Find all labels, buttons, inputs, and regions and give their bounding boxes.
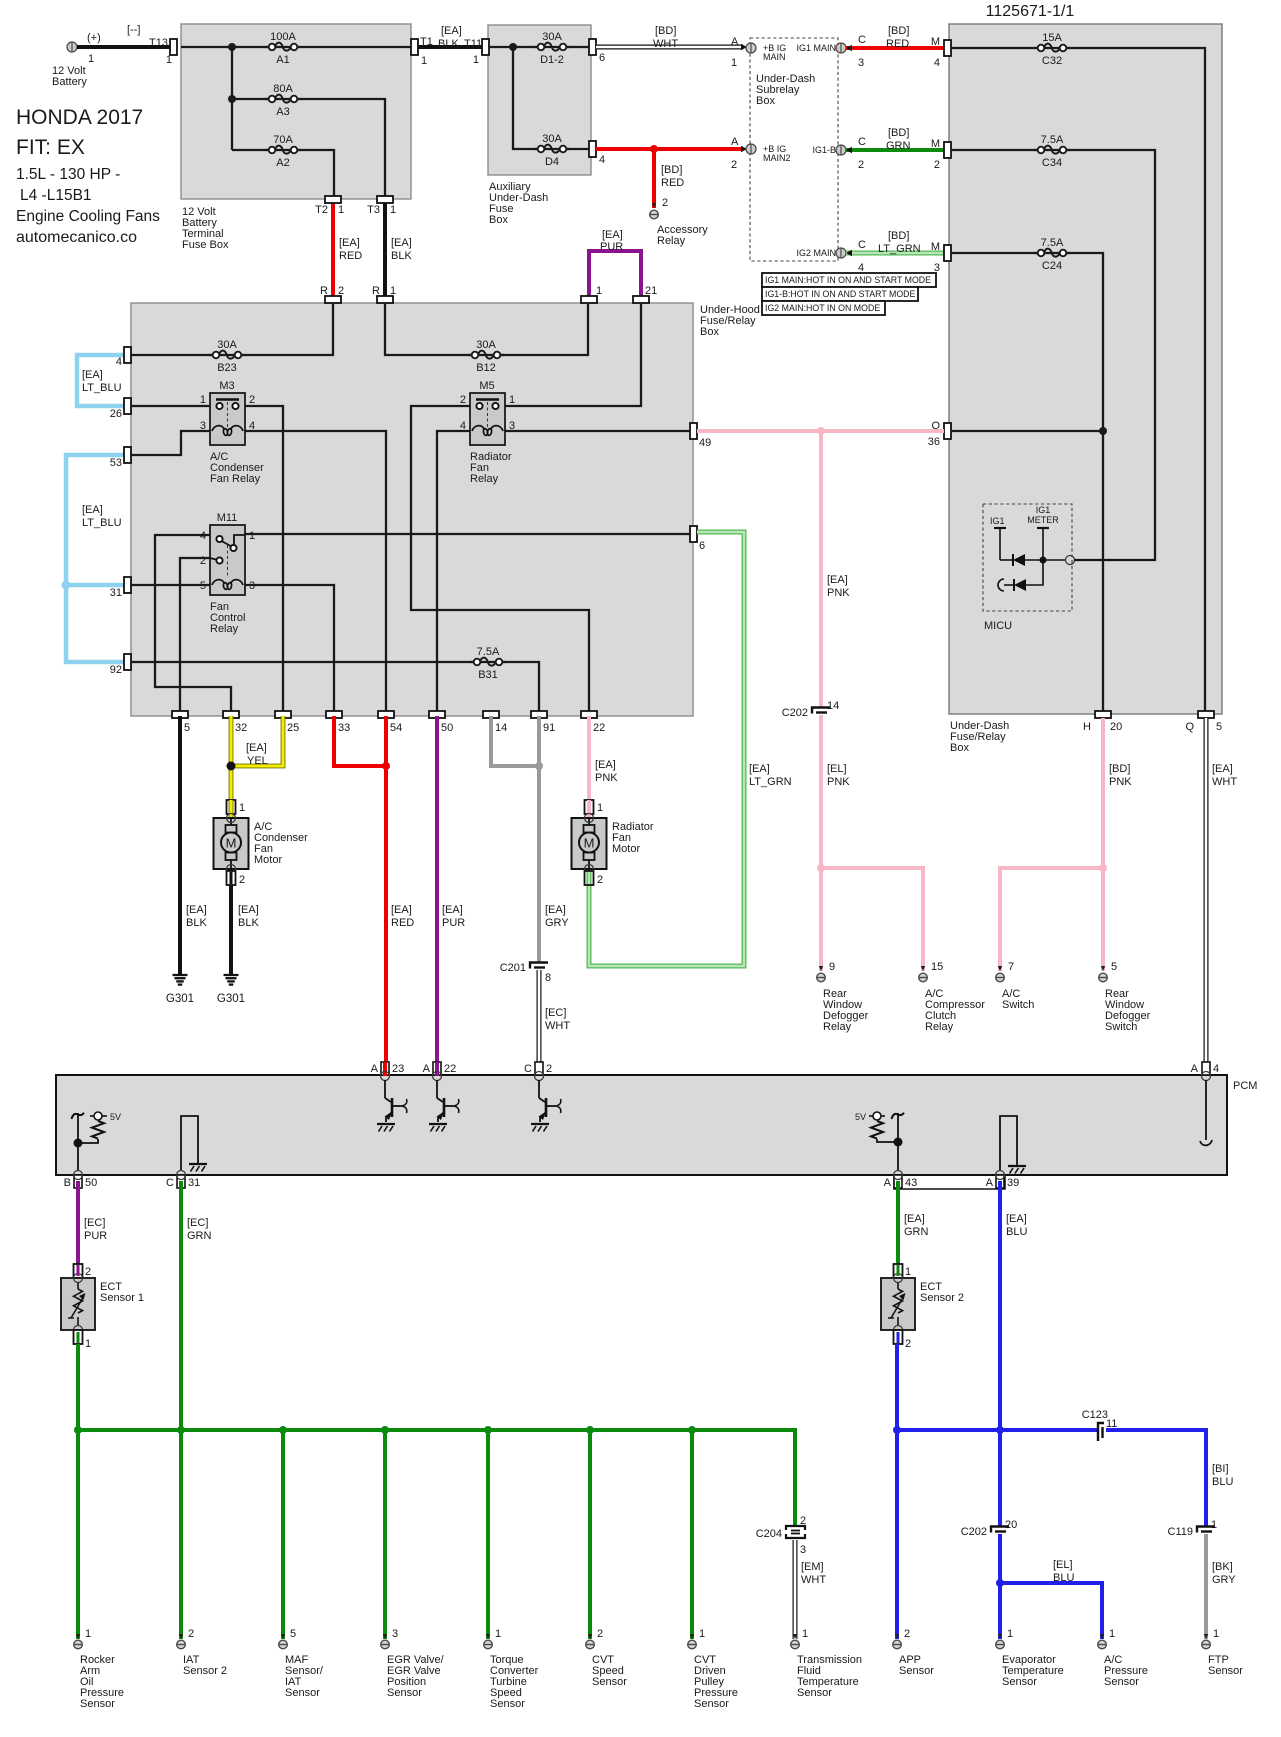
connector M4 pin — [944, 40, 951, 56]
svg-text:WHT: WHT — [801, 1574, 826, 1586]
fuse A3 80A — [265, 83, 301, 118]
svg-text:M: M — [584, 836, 595, 851]
svg-text:Sensor: Sensor — [592, 1676, 627, 1688]
svg-text:BLU: BLU — [1053, 1572, 1074, 1584]
svg-text:B: B — [64, 1177, 71, 1189]
wire M5 pin4 to pin50 — [437, 431, 470, 711]
svg-text:20: 20 — [1110, 721, 1122, 733]
svg-text:YEL: YEL — [247, 755, 268, 767]
svg-text:T13: T13 — [149, 37, 168, 49]
wire M11 pin3 to pin33 — [245, 585, 334, 711]
MICU diode 1 — [1013, 554, 1043, 566]
svg-text:WHT: WHT — [545, 1020, 570, 1032]
svg-text:R: R — [372, 285, 380, 297]
label [EC] GRN — [187, 1217, 212, 1242]
svg-text:M: M — [931, 138, 940, 150]
svg-text:Switch: Switch — [1002, 999, 1034, 1011]
svg-text:LT_GRN: LT_GRN — [878, 243, 921, 255]
wire pin26 to relay M3 pin1 — [131, 405, 210, 407]
svg-text:Sensor: Sensor — [797, 1687, 832, 1699]
MICU IG1 branch — [990, 516, 1013, 560]
svg-text:7: 7 — [1008, 961, 1014, 973]
svg-text:33: 33 — [338, 722, 350, 734]
svg-text:IG1-B: IG1-B — [812, 145, 836, 155]
PCM pin A43 — [884, 1175, 918, 1189]
svg-text:BLK: BLK — [186, 917, 207, 929]
svg-text:[EA]: [EA] — [238, 904, 259, 916]
svg-text:15A: 15A — [1042, 32, 1062, 44]
svg-text:C: C — [858, 34, 866, 46]
svg-text:2: 2 — [239, 874, 245, 886]
svg-text:M: M — [931, 36, 940, 48]
label [EA] BLK pin5 — [186, 904, 207, 929]
PCM pin B50 ring — [74, 1171, 83, 1180]
svg-text:BLU: BLU — [1212, 1476, 1233, 1488]
svg-text:70A: 70A — [273, 134, 293, 146]
wire [BK] GRY C119 to FTP sensor — [1204, 1534, 1208, 1639]
junction bus CVT — [586, 1426, 594, 1434]
svg-text:BLK: BLK — [438, 38, 459, 50]
PCM pin B50 — [64, 1175, 98, 1189]
wire M11 pin1 to pin6 — [245, 533, 690, 535]
svg-text:4: 4 — [460, 420, 466, 432]
junction bus IAT — [177, 1426, 185, 1434]
svg-text:MICU: MICU — [984, 620, 1012, 632]
PCM pin A4 — [1191, 1062, 1219, 1075]
svg-text:4: 4 — [249, 420, 255, 432]
wire [EA] LT_BLU pin53 pin31 pin92 — [66, 455, 123, 662]
pin 33 under-hood bottom — [326, 711, 350, 734]
svg-text:1: 1 — [905, 1266, 911, 1278]
svg-text:Relay: Relay — [823, 1021, 852, 1033]
12 Volt Battery Terminal Fuse Box outline — [181, 24, 411, 199]
svg-text:A: A — [731, 36, 739, 48]
svg-text:9: 9 — [829, 961, 835, 973]
wire junction down to D4 row — [513, 47, 589, 149]
svg-text:R: R — [320, 285, 328, 297]
svg-text:53: 53 — [110, 457, 122, 469]
label [EA] BLK T11 — [438, 25, 482, 50]
label C 3 [BD] RED M — [858, 25, 940, 69]
connector C201 pin 8 — [500, 962, 551, 984]
terminal 7 A/C Switch — [996, 961, 1014, 982]
svg-text:26: 26 — [110, 408, 122, 420]
svg-text:1.5L - 130 HP -: 1.5L - 130 HP - — [16, 166, 120, 183]
PCM A39 internal ground — [1000, 1116, 1026, 1174]
svg-text:1: 1 — [421, 55, 427, 67]
pin 32 under-hood bottom — [223, 711, 247, 734]
label [BK] GRY — [1212, 1561, 1236, 1586]
svg-text:[EA]: [EA] — [827, 574, 848, 586]
svg-text:[EA]: [EA] — [602, 229, 623, 241]
pin 49 under-hood right — [690, 423, 711, 449]
svg-text:6: 6 — [699, 540, 705, 552]
junction pink at C202 branch — [817, 427, 825, 435]
svg-text:1: 1 — [200, 394, 206, 406]
svg-text:5: 5 — [1216, 721, 1222, 733]
svg-text:T3: T3 — [367, 204, 380, 216]
blue sensor bus — [897, 1428, 1098, 1432]
svg-text:[EA]: [EA] — [391, 904, 412, 916]
svg-text:Sensor 2: Sensor 2 — [183, 1665, 227, 1677]
svg-text:3: 3 — [200, 420, 206, 432]
Under-Hood Fuse/Relay Box outline — [131, 303, 693, 716]
pin 26 under-hood left — [110, 398, 131, 420]
label [EL] BLU — [1053, 1559, 1074, 1584]
aux box pin 6 — [589, 39, 605, 64]
svg-text:1: 1 — [495, 1628, 501, 1640]
svg-text:[EA]: [EA] — [1212, 763, 1233, 775]
terminal 3 EGR Valve/ EGR Valve Position Sensor — [381, 1628, 398, 1649]
svg-text:2: 2 — [85, 1266, 91, 1278]
svg-text:C: C — [166, 1177, 174, 1189]
svg-text:Sensor: Sensor — [490, 1698, 525, 1710]
transistor driver at C2 — [531, 1080, 561, 1132]
svg-text:30A: 30A — [542, 133, 562, 145]
svg-text:[BK]: [BK] — [1212, 1561, 1233, 1573]
connector R1 — [372, 285, 396, 303]
svg-text:2: 2 — [800, 1515, 806, 1527]
svg-text:[BD]: [BD] — [661, 164, 682, 176]
svg-text:1: 1 — [239, 802, 245, 814]
connector R2 — [320, 285, 344, 303]
node +B IG MAIN2 — [746, 144, 791, 163]
node labels A 1 — [731, 36, 739, 69]
label [BD] PNK — [1109, 763, 1132, 788]
svg-text:1: 1 — [1007, 1628, 1013, 1640]
transistor driver at A22 — [429, 1080, 459, 1132]
note box IG2 MAIN HOT IN ON MODE — [762, 301, 885, 315]
svg-text:Box: Box — [700, 326, 719, 338]
label [EA] PUR jumper — [600, 229, 623, 253]
wire [EA] RED T2 to R2 — [331, 203, 335, 296]
wire pin5 black to ground — [178, 716, 182, 974]
svg-text:1: 1 — [473, 54, 479, 66]
svg-text:Relay: Relay — [657, 235, 686, 247]
node IG1 MAIN — [796, 43, 846, 53]
svg-text:3: 3 — [249, 580, 255, 592]
connector Q5 — [1185, 711, 1222, 733]
svg-text:(+): (+) — [87, 32, 101, 44]
svg-text:C32: C32 — [1042, 55, 1062, 67]
junction blue bus A39 — [996, 1426, 1004, 1434]
PCM C31 internal ground — [181, 1116, 207, 1172]
svg-text:HONDA 2017: HONDA 2017 — [16, 106, 143, 129]
junction Q36 wire on H20 drop — [1099, 427, 1107, 435]
svg-text:Box: Box — [950, 742, 969, 754]
svg-text:[EA]: [EA] — [595, 759, 616, 771]
svg-text:Box: Box — [489, 214, 508, 226]
svg-text:RED: RED — [886, 38, 909, 50]
PCM pin A23 — [371, 1062, 405, 1075]
svg-text:[EA]: [EA] — [186, 904, 207, 916]
A/C Condenser Fan Motor body M — [214, 802, 249, 886]
wire [BD] GRN IG1-B to M2 — [846, 148, 944, 152]
wire [EC] WHT C201 to PCM C2 — [537, 970, 542, 1062]
junction bus CVT driven — [688, 1426, 696, 1434]
svg-text:IG1-B:HOT IN ON AND START MODE: IG1-B:HOT IN ON AND START MODE — [765, 289, 916, 299]
svg-text:2: 2 — [905, 1338, 911, 1350]
svg-text:1: 1 — [338, 204, 344, 216]
node IG2 MAIN — [796, 248, 846, 258]
svg-text:14: 14 — [495, 722, 507, 734]
svg-text:Battery: Battery — [52, 76, 87, 88]
svg-text:A: A — [731, 136, 739, 148]
svg-text:2: 2 — [597, 1628, 603, 1640]
svg-text:GRY: GRY — [545, 917, 569, 929]
wire BD PNK to A/C switch — [1000, 868, 1103, 971]
label [EA] PNK radiator — [595, 759, 618, 784]
wire [EC] PUR B50 to ECT sensor 1 — [76, 1181, 80, 1278]
junction bus rocker — [74, 1426, 82, 1434]
svg-text:4: 4 — [934, 57, 940, 69]
wire M3 pin3 to pin53 — [131, 431, 210, 455]
wire M4 to fuse C32 to Q5 drop — [951, 48, 1205, 711]
svg-text:Relay: Relay — [470, 473, 499, 485]
svg-text:4: 4 — [599, 154, 605, 166]
wire R1 to fuse B12 to pin1 — [385, 303, 588, 355]
junction BD PNK — [1099, 864, 1107, 872]
svg-text:LT_BLU: LT_BLU — [82, 382, 122, 394]
pin 25 under-hood bottom — [275, 711, 299, 734]
connector C119 pin 1 — [1168, 1519, 1218, 1538]
MICU output to ring — [1043, 559, 1066, 561]
svg-text:2: 2 — [597, 874, 603, 886]
svg-text:2: 2 — [546, 1063, 552, 1075]
svg-text:[EA]: [EA] — [545, 904, 566, 916]
svg-text:22: 22 — [444, 1063, 456, 1075]
wire [EL] BLU branch to A/C pressure — [1000, 1583, 1102, 1639]
svg-text:PNK: PNK — [827, 587, 850, 599]
svg-text:M3: M3 — [219, 380, 234, 392]
svg-text:2: 2 — [460, 394, 466, 406]
wire condenser motor pin2 black to ground — [229, 869, 233, 974]
pin 4 under-hood left — [116, 347, 131, 368]
label [EA] PNK — [827, 574, 850, 599]
svg-text:2: 2 — [904, 1628, 910, 1640]
ECT Sensor 1 — [61, 1264, 95, 1350]
wire T1 to T11 [EA] BLK — [418, 45, 483, 49]
connector M3 pin — [944, 245, 951, 261]
svg-text:A2: A2 — [276, 157, 289, 169]
wire M3 to fuse C24 to H20 drop — [951, 253, 1103, 711]
svg-text:C204: C204 — [756, 1528, 782, 1540]
svg-text:[EA]: [EA] — [442, 904, 463, 916]
svg-text:Motor: Motor — [612, 843, 640, 855]
label [EA] RED at T2 — [339, 237, 362, 262]
pin 54 under-hood bottom — [378, 711, 402, 734]
wire ECT2 to APP drop — [895, 1344, 899, 1639]
connector T3 — [367, 196, 396, 216]
svg-text:3: 3 — [800, 1544, 806, 1556]
MICU IG1 METER branch — [1027, 505, 1059, 560]
svg-text:A: A — [423, 1063, 431, 1075]
svg-text:Sensor: Sensor — [694, 1698, 729, 1710]
pin 50 under-hood bottom — [429, 711, 453, 734]
svg-text:30A: 30A — [542, 31, 562, 43]
wire MAF drop — [281, 1430, 285, 1639]
label [BD] RED accessory — [661, 164, 684, 209]
junction in battery fuse box — [228, 43, 236, 51]
terminal 1 Torque Converter Turbine Speed Sensor — [484, 1628, 501, 1649]
fuse B31 7.5A — [470, 646, 506, 681]
wire EL PNK to rear window defogger relay — [819, 868, 823, 971]
svg-text:5: 5 — [1111, 961, 1117, 973]
pin 22 under-hood bottom — [581, 711, 605, 734]
wire [BD] WHT pin6 to +B IG MAIN — [596, 45, 743, 50]
wire BD PNK to rear window defogger switch — [1101, 868, 1105, 971]
label [EA] YEL — [246, 742, 268, 767]
svg-text:5: 5 — [184, 722, 190, 734]
svg-text:M: M — [226, 836, 237, 851]
arrowhead at IG1-B — [846, 147, 852, 153]
svg-text:Sensor 2: Sensor 2 — [920, 1292, 964, 1304]
wire pin4 to fuse B23 to R2 — [131, 303, 333, 355]
junction 5V right — [894, 1138, 903, 1147]
svg-text:8: 8 — [545, 972, 551, 984]
wire [EA] BLU A39 down — [998, 1181, 1002, 1526]
PCM pin A39 ring — [996, 1171, 1005, 1180]
svg-text:2: 2 — [731, 159, 737, 171]
svg-text:Sensor: Sensor — [1208, 1665, 1243, 1677]
label [EA] LT_BLU upper — [82, 369, 122, 394]
terminal 9 Rear Window Defogger Relay — [817, 961, 835, 982]
junction 5V left — [74, 1139, 83, 1148]
pin 5 under-hood bottom — [172, 711, 190, 734]
arrowhead at IG1 MAIN — [846, 45, 852, 51]
svg-text:21: 21 — [645, 285, 657, 297]
svg-text:C34: C34 — [1042, 157, 1062, 169]
PCM pin A43 ring — [894, 1171, 903, 1180]
svg-text:1: 1 — [249, 530, 255, 542]
wire fuse A3 to T3 drop — [232, 99, 385, 199]
svg-text:2: 2 — [662, 197, 668, 209]
svg-text:14: 14 — [827, 700, 839, 712]
connector T2 — [315, 196, 344, 216]
red junction below box — [382, 762, 390, 770]
svg-text:IG2 MAIN: IG2 MAIN — [796, 248, 836, 258]
label [EC] PUR — [84, 1217, 107, 1242]
svg-text:L4 -L15B1: L4 -L15B1 — [20, 187, 92, 204]
PCM pin C2 ring — [535, 1072, 544, 1081]
label [EA] WHT — [1212, 763, 1237, 788]
terminal 1 FTP Sensor — [1202, 1628, 1219, 1649]
svg-text:2: 2 — [188, 1628, 194, 1640]
svg-text:[EC]: [EC] — [84, 1217, 105, 1229]
svg-text:A: A — [986, 1177, 994, 1189]
svg-text:Fan Relay: Fan Relay — [210, 473, 261, 485]
wire junction down — [231, 47, 233, 150]
PCM pin A4 ring — [1202, 1072, 1211, 1081]
pin 6 under-hood right — [690, 526, 705, 552]
svg-text:[EC]: [EC] — [545, 1007, 566, 1019]
svg-text:C201: C201 — [500, 962, 526, 974]
svg-text:BLK: BLK — [391, 250, 412, 262]
junction blue bus ECT2 — [893, 1426, 901, 1434]
note box IG1-B HOT IN ON AND START MODE — [762, 287, 918, 301]
svg-text:43: 43 — [905, 1177, 917, 1189]
wire CVT driven drop — [690, 1430, 694, 1639]
svg-text:[EC]: [EC] — [187, 1217, 208, 1229]
svg-text:[BD]: [BD] — [655, 25, 676, 37]
junction bus EGR — [381, 1426, 389, 1434]
svg-text:80A: 80A — [273, 83, 293, 95]
svg-text:[EA]: [EA] — [82, 504, 103, 516]
wire [EA] WHT Q5 to PCM A4 — [1204, 718, 1209, 1062]
terminal 1 CVT Driven Pulley Pressure Sensor — [688, 1628, 705, 1649]
svg-text:50: 50 — [85, 1177, 97, 1189]
wire pin21 to relay M5 pin1 — [505, 303, 641, 406]
PCM pin C2 — [524, 1062, 552, 1075]
svg-text:3: 3 — [392, 1628, 398, 1640]
wire [EM] WHT C204 to transmission sensor — [793, 1540, 798, 1639]
wire fuse A2 to T2 drop — [232, 150, 334, 199]
svg-text:C123: C123 — [1082, 1409, 1108, 1421]
svg-text:PNK: PNK — [595, 772, 618, 784]
wire M11 pin2 to pin5 — [180, 558, 210, 711]
wire [BD] PNK H20 down — [1101, 718, 1105, 868]
svg-text:5V: 5V — [855, 1112, 866, 1122]
label [EC] WHT — [545, 1007, 570, 1032]
svg-text:[--]: [--] — [127, 24, 140, 36]
svg-text:A: A — [371, 1063, 379, 1075]
svg-text:G301: G301 — [217, 993, 245, 1005]
wire pin92 to fuse B31 to pin91 — [131, 662, 539, 711]
PCM pin A23 red pass — [383, 1062, 387, 1076]
svg-text:Sensor: Sensor — [1104, 1676, 1139, 1688]
ground G301 condenser — [217, 975, 245, 1005]
svg-text:C202: C202 — [961, 1526, 987, 1538]
svg-text:D4: D4 — [545, 156, 559, 168]
terminal 5 Rear Window Defogger Switch — [1099, 961, 1117, 982]
wire M2 to fuse C34 to MICU — [951, 150, 1155, 560]
arrowhead into +B IG MAIN — [741, 44, 747, 50]
label [EA] GRY — [545, 904, 569, 929]
svg-text:7.5A: 7.5A — [1041, 237, 1064, 249]
svg-text:PUR: PUR — [84, 1230, 107, 1242]
PCM A4 internal termination — [1200, 1080, 1212, 1145]
terminal 5 MAF Sensor/ IAT Sensor — [279, 1628, 296, 1649]
svg-text:[EA]: [EA] — [391, 237, 412, 249]
accessory relay terminal — [650, 203, 659, 219]
wire [EL] PNK C202 to defogger relay branch — [819, 715, 823, 868]
svg-text:Motor: Motor — [254, 854, 282, 866]
svg-text:B23: B23 — [217, 362, 237, 374]
svg-text:49: 49 — [699, 437, 711, 449]
svg-text:WHT: WHT — [1212, 776, 1237, 788]
svg-text:1: 1 — [1211, 1519, 1217, 1531]
svg-text:Switch: Switch — [1105, 1021, 1137, 1033]
svg-text:1125671-1/1: 1125671-1/1 — [986, 3, 1075, 20]
pin 53 under-hood left — [110, 447, 131, 469]
terminal 1 A/C Pressure Sensor — [1098, 1628, 1115, 1649]
yellow junction — [227, 762, 236, 771]
svg-text:GRN: GRN — [886, 140, 911, 152]
svg-text:7.5A: 7.5A — [477, 646, 500, 658]
svg-text:[EA]: [EA] — [246, 742, 267, 754]
junction bus torque — [484, 1426, 492, 1434]
connector T13 — [149, 37, 177, 66]
label C 2 [BD] GRN M — [858, 127, 940, 171]
PCM pin A22 — [423, 1062, 457, 1075]
svg-text:A1: A1 — [276, 54, 289, 66]
svg-text:31: 31 — [110, 587, 122, 599]
ground G301 left — [166, 975, 194, 1005]
green 5V sensor bus — [78, 1430, 795, 1527]
svg-text:C: C — [858, 136, 866, 148]
svg-text:PUR: PUR — [442, 917, 465, 929]
svg-text:Box: Box — [756, 95, 775, 107]
